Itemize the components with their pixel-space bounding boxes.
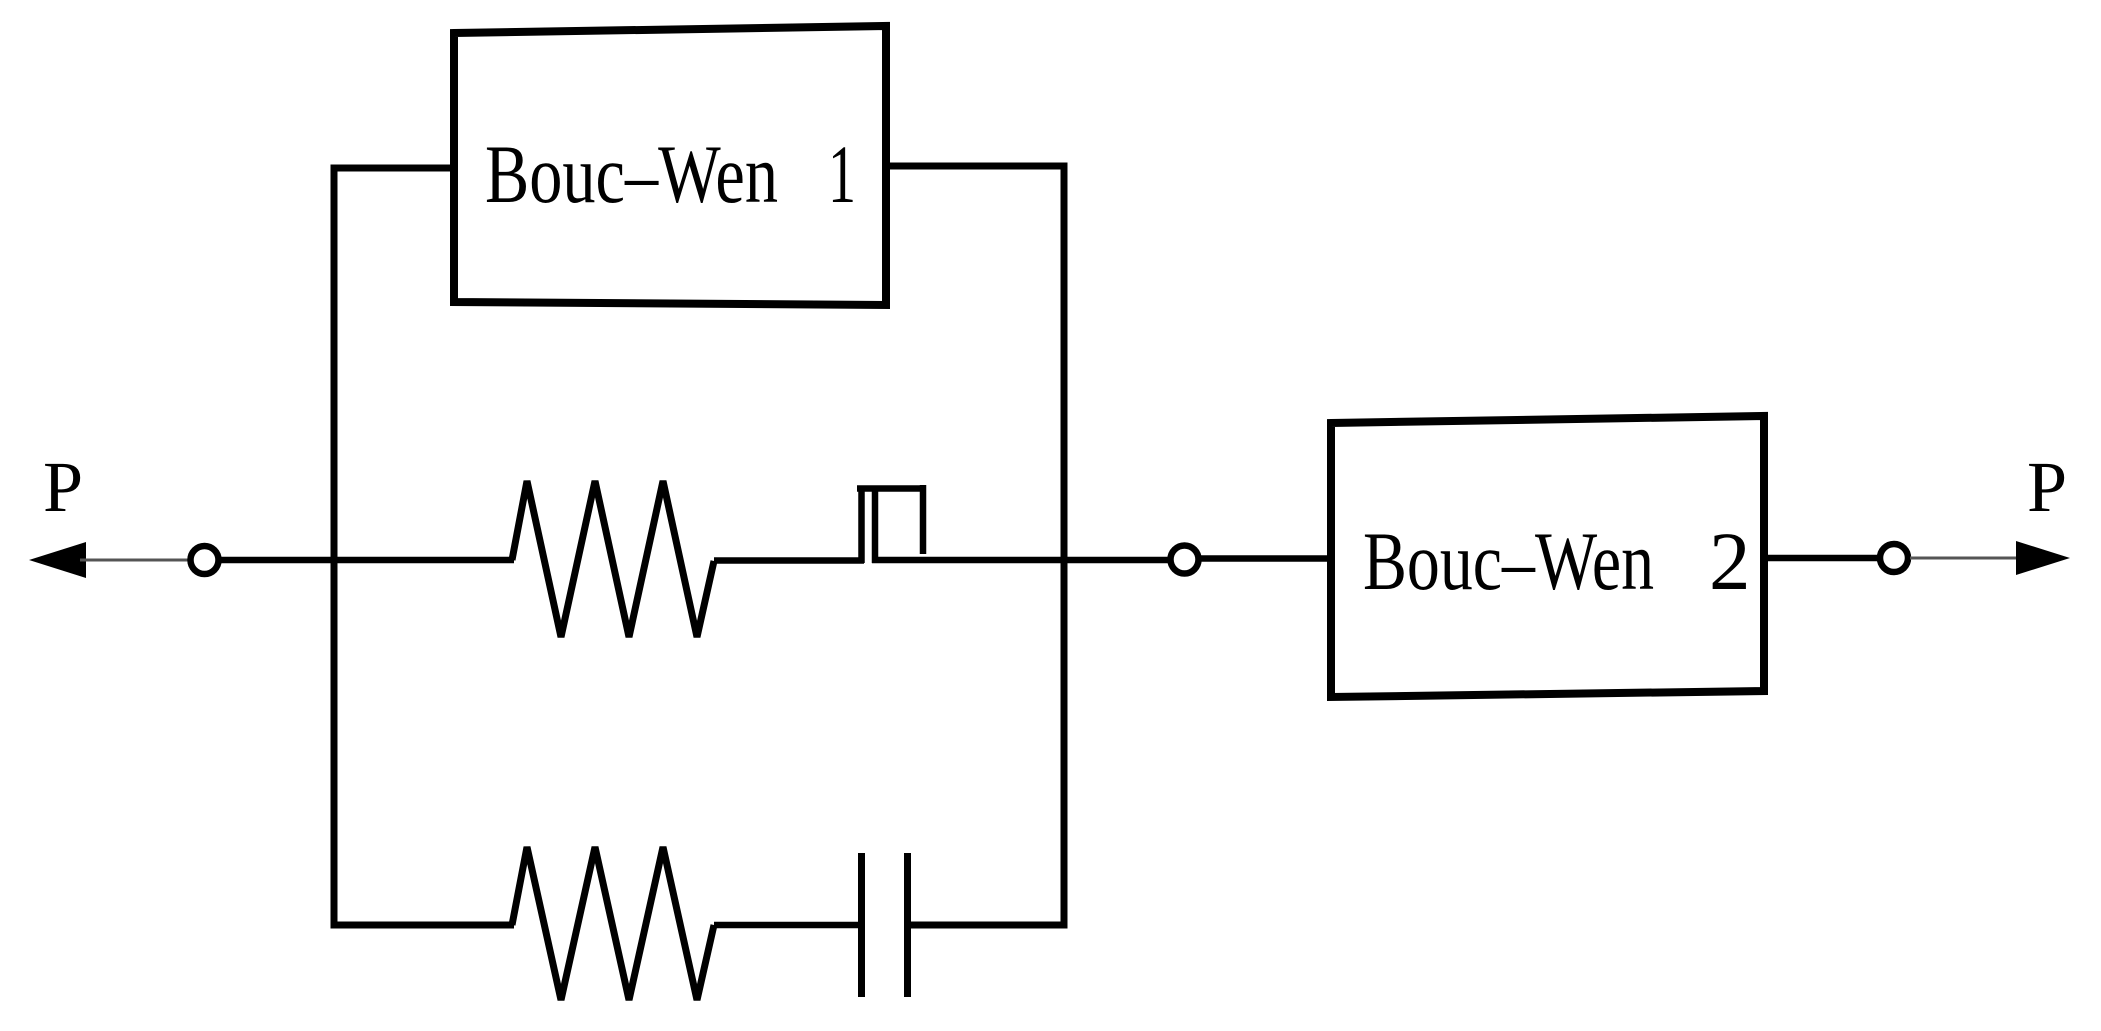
terminal node right (circle) (1880, 544, 1908, 572)
block Bouc-Wen 1 (box) (454, 26, 886, 305)
left bus wire (331, 165, 338, 929)
capacitor / dashpot plates (bottom branch) (862, 853, 908, 997)
label Bouc-Wen 2 (1363, 515, 1751, 607)
terminal node left (circle) (191, 546, 219, 574)
spring K2 (bottom branch) (512, 847, 714, 1000)
right bus wire (1061, 163, 1068, 929)
wire top-right Bouc-Wen 1 to right bus (886, 163, 1067, 170)
wire top-left to Bouc-Wen 1 (331, 165, 457, 172)
wire node to Bouc-Wen 2 (1201, 555, 1334, 562)
wire middle slider to node (872, 557, 1170, 564)
wire bottom spring to capacitor (714, 922, 861, 929)
wire left terminal to spring (221, 557, 514, 564)
node middle (circle) (1171, 546, 1199, 574)
spring K1 (middle branch) (512, 481, 714, 637)
svg-text:Bouc–Wen: Bouc–Wen (485, 128, 778, 220)
label Bouc-Wen 1 (485, 128, 856, 220)
load arrow P left (29, 542, 86, 578)
svg-text:2: 2 (1709, 515, 1751, 607)
svg-text:P: P (43, 447, 83, 527)
block Bouc-Wen 2 (box) (1331, 416, 1764, 697)
thin wire right terminal to arrow (1910, 557, 2020, 560)
wire middle spring to slider (714, 557, 864, 564)
load arrow P right (2016, 541, 2070, 575)
wire bottom capacitor to right bus (907, 922, 1067, 929)
thin wire left arrow to terminal (80, 559, 190, 562)
svg-text:1: 1 (828, 128, 856, 220)
svg-text:P: P (2027, 447, 2067, 527)
friction slider (middle branch) (857, 485, 926, 563)
wire bottom-left bus to spring (331, 922, 514, 929)
svg-text:Bouc–Wen: Bouc–Wen (1363, 515, 1654, 607)
wire Bouc-Wen 2 to right terminal (1764, 555, 1880, 562)
